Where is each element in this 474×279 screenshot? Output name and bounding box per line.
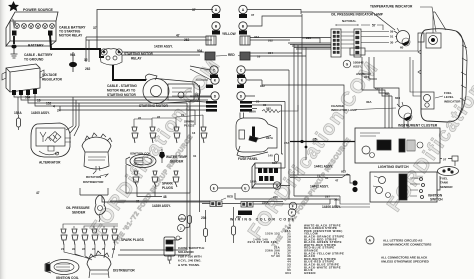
ignition coil bottom — [45, 260, 79, 275]
svg-text:#4: #4 — [181, 113, 185, 117]
svg-text:MOTOR RELAY: MOTOR RELAY — [59, 34, 83, 38]
lighting switch box — [355, 128, 440, 163]
svg-text:37A: 37A — [284, 141, 290, 145]
svg-text:297A 297 30B 30A: 297A 297 30B 30A — [248, 240, 277, 244]
svg-text:IGNITION COIL: IGNITION COIL — [130, 152, 152, 156]
black connector blob pair above legend — [240, 211, 252, 216]
fuse panel — [252, 163, 281, 188]
distributor bottom — [87, 251, 111, 278]
svg-text:14305 ASSY.: 14305 ASSY. — [31, 111, 50, 115]
svg-text:57 90: 57 90 — [271, 254, 280, 258]
svg-text:UNLESS OTHERWISE SPECIFIED: UNLESS OTHERWISE SPECIFIED — [381, 260, 430, 264]
svg-text:236: 236 — [273, 195, 278, 199]
svg-text:25: 25 — [313, 138, 317, 142]
svg-text:A: A — [369, 238, 372, 242]
ignition coil mid — [126, 155, 156, 168]
svg-text:SENDER: SENDER — [72, 211, 86, 215]
oil pressure sender — [95, 195, 106, 222]
svg-text:ALTERNATOR: ALTERNATOR — [39, 161, 61, 165]
wiring color code legend — [248, 223, 345, 275]
svg-text:MOTOR RELAY TO: MOTOR RELAY TO — [107, 89, 136, 93]
svg-text:932: 932 — [341, 170, 346, 174]
oil pressure indicator lamp — [394, 28, 410, 46]
svg-text:152: 152 — [46, 102, 52, 106]
svg-text:OIL PRESSURE: OIL PRESSURE — [66, 206, 90, 210]
svg-text:31: 31 — [325, 176, 329, 180]
vertical pair wires down center — [118, 250, 190, 255]
wires into left column — [190, 66, 211, 193]
svg-text:F: F — [291, 211, 293, 215]
svg-text:SHOWN INDICATE CONNECTORS: SHOWN INDICATE CONNECTORS — [383, 243, 431, 247]
svg-text:57: 57 — [443, 158, 447, 162]
svg-text:14401 ASSY.: 14401 ASSY. — [310, 185, 329, 189]
star marker — [8, 1, 19, 11]
svg-text:37: 37 — [251, 13, 255, 17]
fusible link capsule — [17, 118, 21, 127]
watermark FORDification.com left — [86, 30, 474, 249]
svg-text:C: C — [240, 68, 243, 72]
svg-text:WATER TEMP: WATER TEMP — [166, 155, 188, 159]
wires relay to yellow/red connectors — [86, 37, 212, 62]
connector column left: circled A — [210, 5, 247, 100]
dash wires to lamps/cluster — [362, 12, 446, 128]
starting motor — [143, 74, 200, 104]
svg-text:PLUGS: PLUGS — [162, 186, 173, 190]
svg-text:NATURAL: NATURAL — [342, 19, 356, 23]
svg-text:236A: 236A — [262, 200, 269, 204]
svg-text:DISTRIBUTOR: DISTRIBUTOR — [83, 180, 104, 184]
svg-text:A: A — [215, 8, 218, 12]
temperature gauge housing in cluster — [426, 12, 441, 48]
plug wires above — [63, 224, 118, 228]
svg-text:PLUGS: PLUGS — [184, 124, 194, 128]
svg-text:236: 236 — [306, 36, 311, 40]
svg-text:POWER SOURCE: POWER SOURCE — [23, 8, 54, 12]
svg-text:A: A — [242, 8, 245, 12]
yellow connector squares — [206, 36, 250, 45]
svg-text:140A: 140A — [250, 180, 257, 184]
notes: circled A — [366, 236, 374, 244]
svg-text:VOLTAGE: VOLTAGE — [42, 73, 57, 77]
svg-text:59: 59 — [390, 30, 394, 34]
svg-text:FUSE PANEL: FUSE PANEL — [238, 157, 258, 161]
scan left edge shading — [0, 0, 7, 279]
heavy feed wire with 25 — [290, 141, 355, 143]
svg-text:37: 37 — [192, 8, 196, 12]
sender box wires — [80, 188, 210, 202]
svg-text:& STD. TRANS.: & STD. TRANS. — [178, 263, 200, 267]
svg-text:INDICATOR LAMP: INDICATOR LAMP — [331, 108, 357, 112]
steering column connector body — [236, 118, 277, 157]
multi-bar connectors D column — [206, 101, 252, 215]
svg-text:32A: 32A — [254, 35, 260, 39]
svg-text:904: 904 — [25, 96, 31, 100]
svg-text:152A 152: 152A 152 — [265, 232, 280, 236]
svg-text:140: 140 — [268, 154, 273, 158]
heavy cable battery to relay — [50, 35, 104, 57]
bulkhead connector strip 2 — [350, 29, 365, 57]
circled connectors row mid — [210, 182, 297, 210]
svg-text:904: 904 — [197, 49, 203, 53]
svg-text:152A: 152A — [14, 111, 22, 115]
svg-text:SPARK PLUGS: SPARK PLUGS — [121, 238, 144, 242]
svg-text:30B: 30B — [334, 198, 340, 202]
svg-text:14289 ASSY.: 14289 ASSY. — [152, 204, 171, 208]
starting motor relay U relay — [100, 49, 122, 65]
svg-text:262: 262 — [266, 107, 271, 111]
svg-text:14290 ASSY.: 14290 ASSY. — [154, 45, 173, 49]
mid distributor with cap — [82, 133, 112, 174]
engine harness wires 47/48/31 — [110, 165, 210, 201]
svg-text:47: 47 — [176, 34, 180, 38]
connector bowties below circles — [206, 14, 247, 88]
svg-text:RED: RED — [228, 53, 235, 57]
svg-text:904: 904 — [364, 75, 369, 79]
wires out of right column — [245, 10, 395, 142]
svg-text:262: 262 — [184, 38, 190, 42]
svg-text:J: J — [180, 227, 182, 231]
svg-text:DISTRIBUTOR: DISTRIBUTOR — [113, 269, 135, 273]
regulator harness wires — [14, 85, 212, 255]
svg-text:SPARK: SPARK — [162, 182, 174, 186]
svg-text:57: 57 — [375, 87, 379, 91]
alternator — [31, 123, 71, 157]
svg-text:BATTERY: BATTERY — [28, 44, 44, 48]
svg-text:CABLE - STARTING: CABLE - STARTING — [107, 84, 137, 88]
wires lighting to ignition — [336, 174, 440, 207]
svg-text:937A: 937A — [266, 136, 274, 140]
svg-text:F: F — [292, 204, 294, 208]
svg-text:14401 ASSY.: 14401 ASSY. — [314, 165, 333, 169]
svg-text:47: 47 — [36, 191, 40, 195]
ignition switch box — [370, 172, 437, 202]
svg-text:932: 932 — [260, 84, 265, 88]
svg-text:904: 904 — [268, 51, 273, 55]
plug wires to distributor — [64, 245, 115, 260]
alternator wires up — [66, 97, 79, 136]
svg-text:B: B — [242, 24, 245, 28]
svg-text:RELAY: RELAY — [131, 57, 142, 61]
svg-text:RED: RED — [227, 195, 233, 199]
battery — [6, 12, 58, 46]
voltage regulator — [2, 64, 44, 92]
circled G 10B942 ASSY — [343, 60, 351, 68]
bulkhead connector strip 1 — [331, 29, 341, 57]
connector squares pairs — [210, 201, 253, 207]
svg-text:31: 31 — [136, 200, 140, 204]
cable battery to ground — [13, 36, 15, 44]
water temp sender — [159, 152, 165, 159]
red connector squares — [205, 52, 250, 60]
svg-text:YELLOW: YELLOW — [222, 32, 236, 36]
capsule connector 140 — [275, 154, 279, 162]
central vertical wire trunk — [255, 14, 331, 199]
spark plugs mid row (3) — [133, 171, 179, 187]
svg-text:SWITCH: SWITCH — [430, 198, 443, 202]
battery terminals — [12, 31, 17, 36]
svg-text:60: 60 — [385, 92, 389, 96]
svg-text:16: 16 — [192, 131, 196, 135]
svg-text:16: 16 — [37, 99, 41, 103]
instrument cluster outline — [418, 29, 467, 122]
svg-text:SENDER: SENDER — [440, 185, 453, 189]
fuel tank sender — [438, 167, 459, 176]
heavy cable relay to starting motor — [113, 65, 146, 80]
svg-text:57: 57 — [372, 24, 376, 28]
svg-text:INDICATOR: INDICATOR — [444, 99, 461, 103]
svg-text:LIGHTING SWITCH: LIGHTING SWITCH — [378, 165, 409, 169]
svg-text:ROTATION: ROTATION — [86, 175, 101, 179]
spark plugs top row (4) — [132, 115, 207, 143]
svg-text:262: 262 — [85, 67, 91, 71]
svg-text:GREEN: GREEN — [304, 271, 316, 275]
svg-text:51: 51 — [390, 35, 394, 39]
svg-text:STARTING MOTOR: STARTING MOTOR — [124, 52, 153, 56]
regulator terminals — [12, 89, 37, 95]
svg-text:297: 297 — [325, 195, 330, 199]
wire 37 vertical — [97, 10, 213, 50]
svg-text:TO GROUND: TO GROUND — [24, 58, 44, 62]
svg-text:E: E — [244, 186, 246, 190]
svg-text:WIRING COLOR CODE: WIRING COLOR CODE — [230, 218, 296, 222]
svg-text:D: D — [240, 94, 243, 98]
svg-text:16: 16 — [257, 55, 261, 59]
fuel gauge in cluster — [421, 92, 434, 109]
svg-text:CABLE - BATTERY: CABLE - BATTERY — [24, 53, 53, 57]
svg-text:#2: #2 — [138, 116, 142, 120]
svg-text:G: G — [346, 62, 349, 66]
svg-text:ASSY.: ASSY. — [353, 65, 362, 69]
carb throttle solenoid — [164, 236, 180, 264]
svg-text:REGULATOR: REGULATOR — [42, 78, 63, 82]
capsule connectors — [188, 216, 192, 224]
svg-text:TEMPERATURE INDICATOR: TEMPERATURE INDICATOR — [370, 5, 413, 9]
svg-text:48: 48 — [163, 195, 167, 199]
svg-text:24: 24 — [57, 109, 61, 113]
mid horizontal wires to right — [202, 113, 350, 205]
svg-text:60: 60 — [400, 46, 404, 50]
svg-text:#3: #3 — [157, 115, 161, 119]
svg-text:608: 608 — [395, 96, 400, 100]
svg-text:47: 47 — [335, 179, 339, 183]
svg-text:858A: 858A — [249, 110, 257, 114]
svg-text:21: 21 — [317, 174, 321, 178]
svg-text:30A: 30A — [366, 100, 372, 104]
svg-text:21: 21 — [256, 100, 260, 104]
svg-text:37: 37 — [93, 26, 97, 30]
svg-text:J: J — [181, 217, 183, 221]
svg-text:FORDification.COM: FORDification.COM — [86, 54, 225, 239]
svg-text:SENDER: SENDER — [170, 160, 184, 164]
junction dot — [300, 140, 303, 143]
svg-text:B: B — [215, 24, 218, 28]
svg-text:4: 4 — [53, 105, 55, 109]
bottom spark plugs row (6) — [61, 229, 118, 245]
svg-text:K: K — [241, 78, 244, 82]
svg-text:904: 904 — [285, 271, 291, 275]
svg-text:262: 262 — [268, 39, 273, 43]
svg-text:53A: 53A — [272, 161, 277, 165]
circled J connectors — [178, 215, 186, 232]
ignition switch left terminals — [352, 180, 357, 185]
svg-text:STARTING MOTOR: STARTING MOTOR — [107, 93, 136, 97]
svg-text:D: D — [214, 94, 217, 98]
svg-text:31: 31 — [193, 154, 197, 158]
connector 904 oval — [69, 62, 77, 67]
circled F above legend — [288, 209, 296, 217]
oil lamp connector rect — [418, 33, 424, 42]
charge indicator lamp — [397, 102, 412, 121]
svg-text:30: 30 — [390, 41, 394, 45]
svg-text:E: E — [213, 186, 215, 190]
svg-text:OIL PRESSURE INDICATOR LAMP: OIL PRESSURE INDICATOR LAMP — [331, 13, 384, 17]
